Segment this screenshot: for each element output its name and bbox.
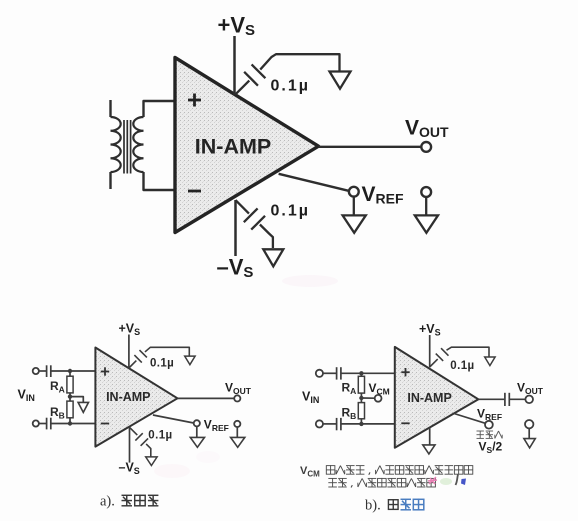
terminal VCM: [375, 395, 382, 402]
input terminal a top: [33, 368, 39, 374]
terminal VREF: [349, 187, 359, 197]
output coupling cap b: [504, 393, 506, 406]
ground b top cap: [485, 357, 495, 366]
mid node dot b: [359, 396, 363, 400]
op-amp U1 IN-AMP: [175, 58, 319, 233]
wire -VS: [234, 200, 237, 256]
terminal VOUT: [421, 142, 431, 152]
transformer T1: [111, 100, 144, 189]
wire VREF ground a: [196, 426, 198, 437]
svg-text:b).: b).: [365, 498, 381, 514]
wire far right ground b: [528, 428, 530, 438]
node dot a top: [68, 369, 72, 373]
wire VREF: [279, 174, 349, 191]
input coupling cap b bottom: [323, 423, 336, 425]
input coupling cap a bottom: [39, 423, 46, 425]
capacitor C1 0.1u top: [236, 81, 250, 95]
ground below op-amp b: [423, 445, 435, 454]
resistor RA b: [360, 373, 362, 376]
resistor RB b: [360, 398, 362, 403]
input coupling cap b top: [323, 372, 336, 374]
minus input label: [188, 190, 201, 193]
resistor RB a: [69, 397, 71, 402]
svg-text:0.1µ: 0.1µ: [148, 429, 172, 441]
terminal VOUT b: [525, 396, 533, 404]
green smudge: [440, 478, 452, 485]
wire b top input: [341, 372, 395, 374]
wire +VS: [233, 36, 236, 95]
minus label a: [101, 423, 109, 425]
terminal VREF a: [194, 420, 200, 426]
capacitor 0.1u a bottom: [130, 427, 138, 435]
svg-text:0.1µ: 0.1µ: [150, 357, 174, 369]
input terminal b top: [316, 370, 323, 377]
wire +VS b: [429, 335, 431, 367]
pink scribble: [428, 477, 437, 484]
wire mid node to ground a: [70, 397, 83, 403]
wire b bottom input: [341, 423, 395, 425]
resistor RA a: [69, 371, 71, 376]
terminal far right b: [525, 420, 533, 428]
wire terminal to ground: [425, 197, 427, 215]
op-amp U2 IN-AMP a: [95, 348, 177, 447]
terminal far right a: [234, 421, 240, 427]
ground a top cap: [185, 356, 195, 365]
input terminal a bottom: [33, 420, 39, 426]
wire VREF b: [454, 414, 485, 424]
wire a top input: [51, 370, 96, 372]
plus label a: [101, 371, 109, 373]
op-amp U3 IN-AMP b: [395, 347, 479, 448]
capacitor 0.1u a top: [129, 361, 136, 368]
svg-text:IN-AMP: IN-AMP: [407, 391, 451, 405]
dark pen stroke: [456, 475, 459, 486]
wire VOUT b: [478, 398, 504, 400]
terminal VOUT a: [234, 395, 240, 401]
terminal VREF b: [485, 421, 493, 429]
minus label b: [401, 422, 409, 424]
svg-text:0.1µ: 0.1µ: [450, 360, 474, 372]
ground a bottom cap: [146, 457, 157, 466]
svg-text:IN-AMP: IN-AMP: [195, 135, 271, 159]
ground far right b: [524, 439, 535, 448]
wire +VS a: [128, 335, 130, 369]
ground below VREF: [343, 215, 366, 232]
ground top-right: [330, 72, 351, 89]
input coupling cap a top: [39, 370, 46, 372]
blue blob: [461, 479, 466, 486]
capacitor C2 0.1u bottom: [236, 200, 249, 213]
ground mid a: [78, 402, 88, 412]
wire to VCM terminal: [361, 397, 374, 399]
ground VREF a: [190, 437, 204, 447]
node dot b bottom: [359, 422, 363, 426]
note text line 2: [328, 478, 337, 487]
wire far right ground a: [236, 427, 238, 437]
plus label b: [401, 371, 409, 373]
ground far right a: [231, 437, 245, 447]
svg-text:0.1µ: 0.1µ: [271, 78, 310, 95]
wire VOUT a: [178, 397, 235, 399]
wire VREF a: [153, 415, 194, 423]
wire bottom edge to ground b: [429, 428, 431, 445]
terminal far right: [421, 187, 431, 197]
wire a bottom input: [51, 423, 96, 425]
node dot b top: [359, 371, 363, 375]
ground below C2: [263, 249, 283, 266]
plus input label: [188, 99, 201, 102]
wire secondary bottom to -IN: [144, 172, 177, 190]
wire VOUT: [319, 146, 422, 148]
svg-text:IN-AMP: IN-AMP: [106, 390, 150, 404]
ground far right: [415, 215, 438, 232]
wire secondary top to +IN: [144, 101, 177, 117]
mid node dot a: [68, 394, 72, 398]
capacitor 0.1u b top: [430, 359, 438, 367]
input terminal b bottom: [316, 420, 323, 427]
node dot a bottom: [68, 421, 72, 425]
wire VREF to ground: [353, 197, 355, 215]
svg-text:a).: a).: [100, 494, 115, 510]
wire -VS a: [129, 427, 131, 462]
svg-text:0.1µ: 0.1µ: [271, 203, 310, 220]
usually VS/2 note: [477, 431, 484, 438]
